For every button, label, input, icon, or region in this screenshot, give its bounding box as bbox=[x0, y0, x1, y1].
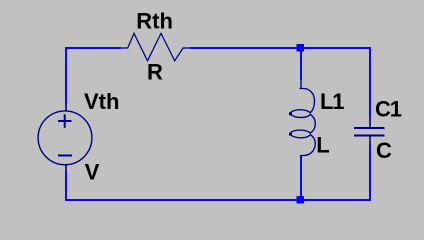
junction node bottom (middle branch / bottom rail) bbox=[297, 196, 305, 204]
svg-text:L1: L1 bbox=[320, 89, 344, 114]
inductor loop dot 1 bbox=[289, 112, 292, 115]
svg-text:Rth: Rth bbox=[136, 9, 173, 34]
inductor loop dot 2 bbox=[289, 133, 292, 136]
wire top rail right segment bbox=[190, 47, 371, 49]
wire bottom rail bbox=[65, 199, 371, 201]
wire left branch upper bbox=[65, 47, 67, 104]
resistor Rth bbox=[121, 33, 190, 60]
voltage source Vth bbox=[38, 104, 92, 172]
svg-text:L: L bbox=[316, 132, 329, 157]
capacitor C1 bbox=[354, 118, 385, 145]
inductor L1 bbox=[290, 80, 315, 158]
svg-text:Vth: Vth bbox=[84, 89, 119, 114]
wire right branch upper bbox=[369, 47, 371, 118]
svg-text:C1: C1 bbox=[375, 96, 402, 121]
wire middle branch upper bbox=[300, 48, 302, 80]
junction node top (middle branch / top rail) bbox=[297, 44, 305, 52]
svg-text:C: C bbox=[376, 138, 392, 163]
svg-text:V: V bbox=[85, 160, 100, 185]
wire top rail left segment bbox=[65, 47, 121, 49]
wire right branch lower bbox=[369, 145, 371, 201]
wire middle branch lower bbox=[300, 156, 302, 200]
wire left branch lower bbox=[65, 171, 67, 201]
svg-text:R: R bbox=[147, 60, 163, 85]
